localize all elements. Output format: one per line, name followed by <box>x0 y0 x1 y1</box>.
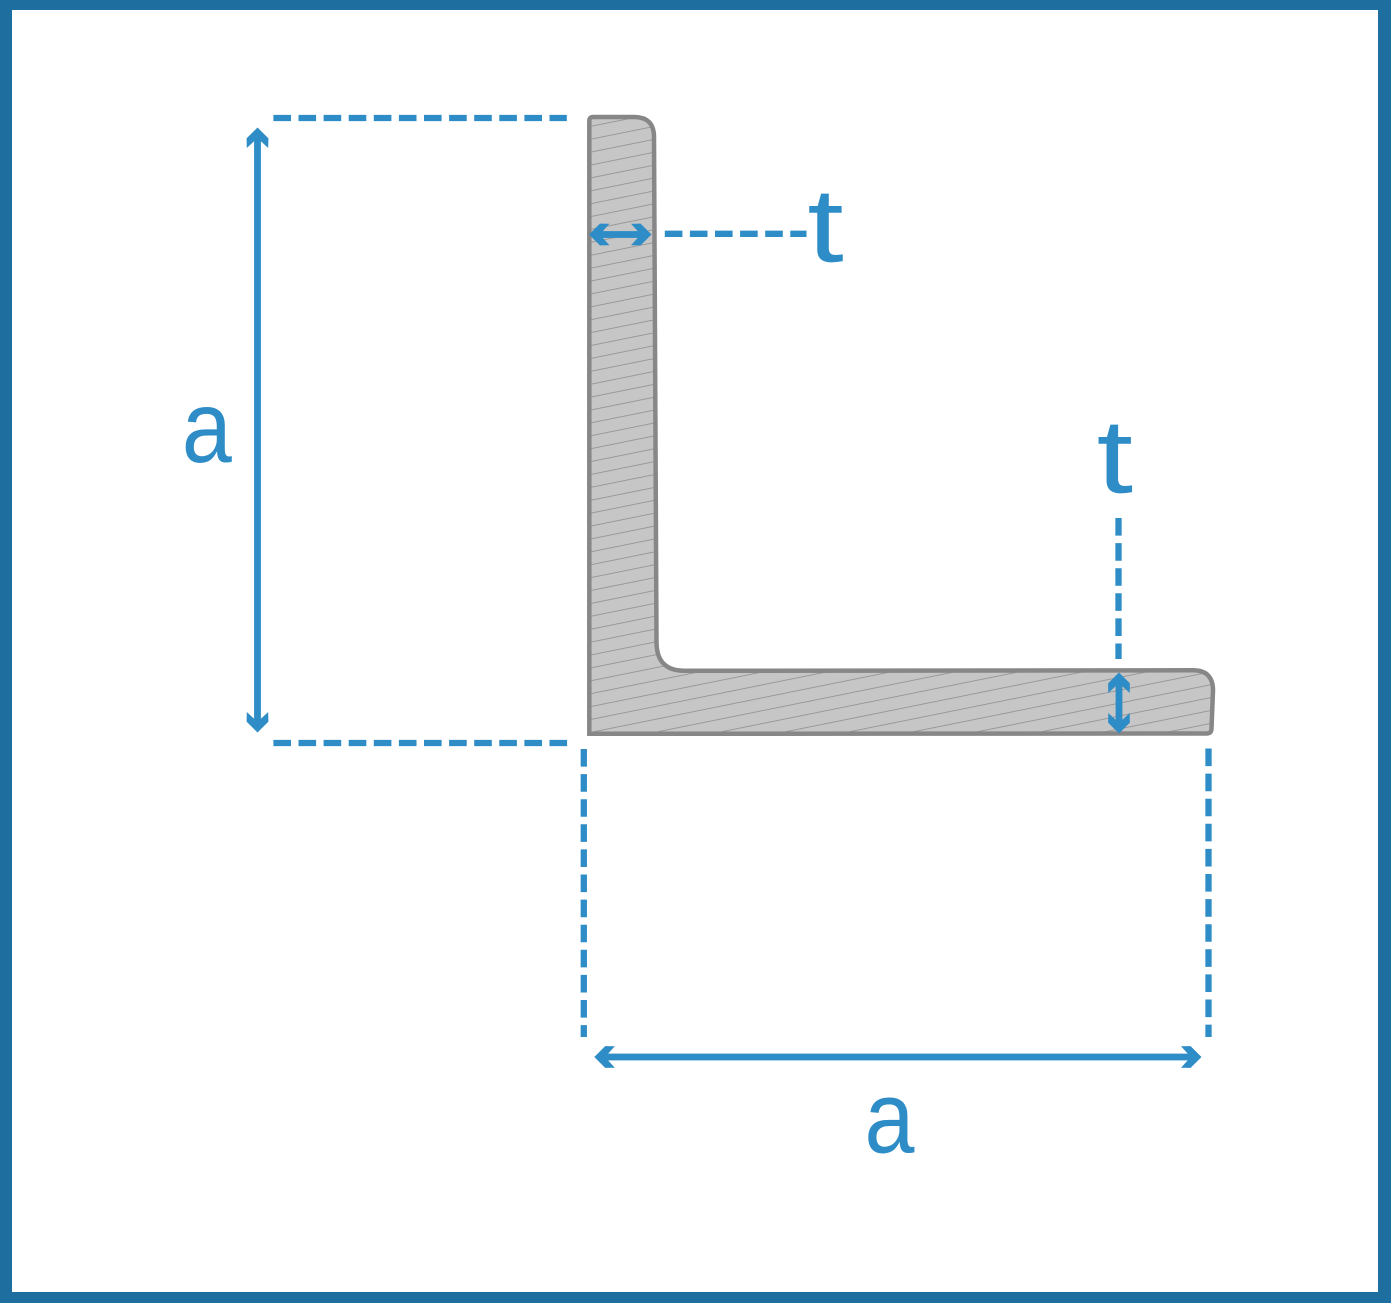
bottom horizontal double-headed dimension arrow for leg length a <box>594 1046 615 1068</box>
bottom-left vertical dashed <box>581 749 587 1037</box>
profile gray fill <box>589 117 1213 734</box>
top t dashed <box>665 231 807 237</box>
profile hatching and gray outline <box>589 117 1213 734</box>
svg-text:a: a <box>864 1061 914 1175</box>
svg-text:t: t <box>807 167 843 284</box>
arrows <box>247 128 1202 1068</box>
angle profile L-section (equal leg angle, legs a x a, thickness t) <box>589 117 1213 734</box>
bottom-right vertical dashed <box>1205 749 1211 1038</box>
dashed dimension/extension lines <box>273 118 1208 1037</box>
top-left horizontal dashed <box>273 115 566 121</box>
top horizontal double-headed dimension arrow for thickness t of vertical leg <box>589 224 610 246</box>
svg-text:t: t <box>1097 398 1133 515</box>
right t vertical dashed <box>1115 518 1121 659</box>
right vertical double-headed dimension arrow for thickness t of horizontal leg <box>1108 673 1130 694</box>
bottom-left horizontal dashed <box>273 740 569 746</box>
svg-text:a: a <box>182 371 232 485</box>
left vertical double-headed dimension arrow for leg length a <box>247 128 269 149</box>
